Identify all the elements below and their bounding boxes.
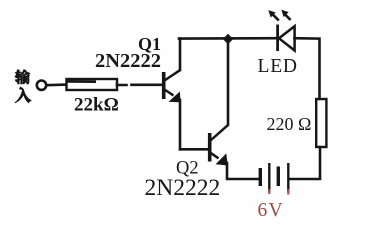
svg-text:2N2222: 2N2222 [145, 175, 221, 201]
svg-text:6V: 6V [258, 200, 284, 221]
wire Q1 emitter to Q2 base [180, 148, 209, 151]
LED light arrow 2 [281, 10, 290, 20]
label 入 (input char 2) [15, 87, 31, 103]
svg-text:LED: LED [258, 56, 298, 77]
battery plate red tip 1 [268, 189, 270, 194]
transistor Q1 collector diagonal [165, 70, 181, 81]
wire Q1 emitter vertical [179, 100, 182, 149]
wire top rail Q1 collector to LED [179, 37, 277, 40]
battery B1 plate 1 short [259, 168, 262, 186]
battery B1 plate 3 short [277, 167, 280, 187]
resistor R2 220 body [316, 99, 326, 147]
LED D1 cathode bar [276, 25, 279, 52]
LED light arrow 1 [268, 10, 279, 20]
svg-text:2N2222: 2N2222 [95, 50, 161, 72]
svg-text:220 Ω: 220 Ω [267, 114, 312, 134]
wire Q2 collector vertical to junction [227, 39, 230, 125]
transistor Q1 emitter diagonal with arrow [165, 90, 181, 103]
battery plate red tip 2 [287, 189, 289, 195]
wire Q1 collector vertical [179, 39, 182, 70]
svg-text:22kΩ: 22kΩ [74, 95, 119, 116]
resistor R1 ink smudge on top edge [68, 80, 97, 83]
battery B1 plate 2 long [268, 163, 270, 192]
wire R1 to Q1 base [117, 84, 162, 87]
wire Q2 emitter down then right to battery [227, 163, 258, 179]
battery B1 plate 4 long [287, 163, 289, 192]
resistor R1 22k body [67, 79, 118, 90]
wire R2 bottom to battery positive [290, 147, 320, 179]
LED D1 triangle [279, 26, 295, 50]
wire input terminal to resistor R1 [47, 83, 66, 86]
transistor Q1 base bar [162, 72, 166, 99]
transistor Q2 base bar [208, 133, 212, 162]
input terminal circle [37, 81, 46, 90]
transistor Q2 collector diagonal [211, 125, 229, 141]
wire LED to top-right corner then down to R2 [295, 38, 320, 99]
transistor Q2 emitter diagonal with arrow [211, 153, 228, 166]
node junction dot at collector rail [223, 34, 233, 44]
label 输 (input char 1) [15, 70, 30, 84]
